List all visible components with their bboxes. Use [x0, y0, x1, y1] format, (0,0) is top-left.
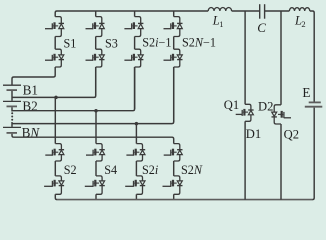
inductor L2	[289, 8, 309, 11]
svg-text:D1: D1	[246, 127, 261, 141]
inductor L1	[208, 7, 231, 11]
svg-text:E: E	[302, 85, 310, 100]
svg-text:S3: S3	[105, 36, 118, 50]
node junction dot S2 tap	[54, 96, 58, 100]
svg-text:Q2: Q2	[284, 128, 299, 142]
wire leg S2N to bottom bus	[173, 194, 175, 199]
transistor S2i lower MOSFET with body diode	[136, 176, 142, 181]
wire leg S2 to bottom bus	[55, 194, 57, 199]
battery BN	[3, 126, 21, 128]
wire mid leg S2i-1	[134, 37, 136, 50]
svg-text:S2N−1: S2N−1	[182, 36, 216, 50]
wire leg S3 down to battery tap	[95, 67, 97, 96]
battery B2	[3, 100, 21, 102]
transistor Q2 with diode D2	[274, 105, 281, 112]
battery E	[309, 101, 321, 103]
wire L2 to right edge down to E	[310, 11, 314, 102]
svg-text:S2i−1: S2i−1	[142, 36, 171, 50]
transistor S4 upper MOSFET with body diode	[96, 144, 102, 150]
wire C to L2	[265, 10, 290, 12]
wire Q1 leg to bottom bus	[244, 121, 246, 199]
transistor S3 upper MOSFET with body diode	[96, 17, 102, 24]
node junction dot S2i tap	[135, 122, 139, 126]
wire Q2 leg from top bus	[280, 11, 282, 105]
transistor S2N-1 upper MOSFET with body diode	[174, 17, 180, 24]
wire battery stem top corner to tap B1+	[12, 77, 54, 85]
wire mid leg S2N-1	[173, 37, 175, 50]
transistor S1 lower MOSFET with body diode	[55, 49, 61, 55]
battery B1	[3, 84, 21, 86]
wire mid leg S1	[54, 37, 56, 50]
wire leg S2i to bottom bus	[135, 194, 137, 199]
wire leg S2i-1 from top bus	[134, 11, 136, 17]
svg-text:D2: D2	[258, 100, 273, 114]
wire bottom bus	[57, 199, 313, 201]
svg-text:Q1: Q1	[224, 98, 239, 112]
transistor S2i upper MOSFET with body diode	[136, 144, 142, 150]
wire battery stem BN- corner tap to S2N leg	[12, 134, 174, 144]
transistor S2 upper MOSFET with body diode	[55, 144, 61, 150]
wire leg S2i from battery tap down	[135, 124, 137, 144]
wire top bus from S1 leg to L1	[55, 11, 208, 17]
battery stack ellipsis dots	[11, 112, 13, 114]
wire E to bottom right corner	[313, 108, 315, 200]
wire battery stem above BN	[11, 122, 13, 127]
wire leg S4 from battery tap down	[95, 111, 97, 144]
wire leg S2N-1 from top bus	[173, 11, 175, 17]
wire leg S2N-1 down to battery tap	[173, 67, 175, 122]
svg-text:S2N: S2N	[181, 163, 203, 177]
wire Q2 leg to bottom bus	[280, 124, 282, 200]
wire leg S4 to bottom bus	[95, 194, 97, 199]
wire L1 to capacitor C	[232, 10, 260, 12]
transistor S4 lower MOSFET with body diode	[96, 176, 102, 181]
svg-text:2: 2	[301, 19, 305, 29]
wire tap BN+ to S2N-1 leg	[12, 67, 174, 124]
transistor S2N upper MOSFET with body diode	[174, 144, 180, 150]
wire battery stem below B2	[11, 107, 13, 111]
svg-text:C: C	[257, 20, 266, 35]
transistor S2 lower MOSFET with body diode	[55, 176, 61, 181]
wire tap B2- to S2i-1 leg	[12, 67, 135, 111]
transistor S1 upper MOSFET with body diode	[55, 17, 61, 24]
transistor Q1 with diode D1	[245, 104, 251, 110]
wire leg S3 from top bus	[95, 11, 97, 17]
wire leg S2 from battery tap down	[54, 97, 56, 143]
wire mid leg S2	[54, 161, 56, 176]
wire tap B1-B2 junction to S3 leg	[12, 67, 96, 97]
svg-text:S1: S1	[64, 36, 77, 50]
transistor S2i-1 upper MOSFET with body diode	[135, 17, 141, 24]
wire mid leg S2i	[135, 161, 137, 176]
wire leg S1 down to battery tap	[54, 67, 56, 77]
svg-text:S2: S2	[64, 163, 77, 177]
capacitor C	[259, 4, 261, 19]
node junction dot S4 tap	[94, 109, 98, 113]
transistor S3 lower MOSFET with body diode	[96, 49, 102, 55]
svg-text:S2i: S2i	[142, 163, 159, 177]
wire leg S2i-1 down to battery tap	[134, 67, 136, 109]
svg-text:B1: B1	[23, 83, 38, 98]
wire mid leg S4	[95, 161, 97, 176]
svg-text:S4: S4	[104, 163, 117, 177]
transistor S2i-1 lower MOSFET with body diode	[135, 49, 141, 55]
transistor S2N-1 lower MOSFET with body diode	[174, 49, 180, 55]
wire mid leg S2N	[173, 161, 175, 176]
wire battery stem B1 to B2	[11, 91, 13, 101]
svg-text:1: 1	[219, 19, 223, 29]
transistor S2N lower MOSFET with body diode	[174, 176, 180, 181]
wire Q1 leg from top bus	[244, 11, 246, 104]
wire mid leg S3	[95, 37, 97, 50]
svg-text:B2: B2	[22, 99, 37, 114]
